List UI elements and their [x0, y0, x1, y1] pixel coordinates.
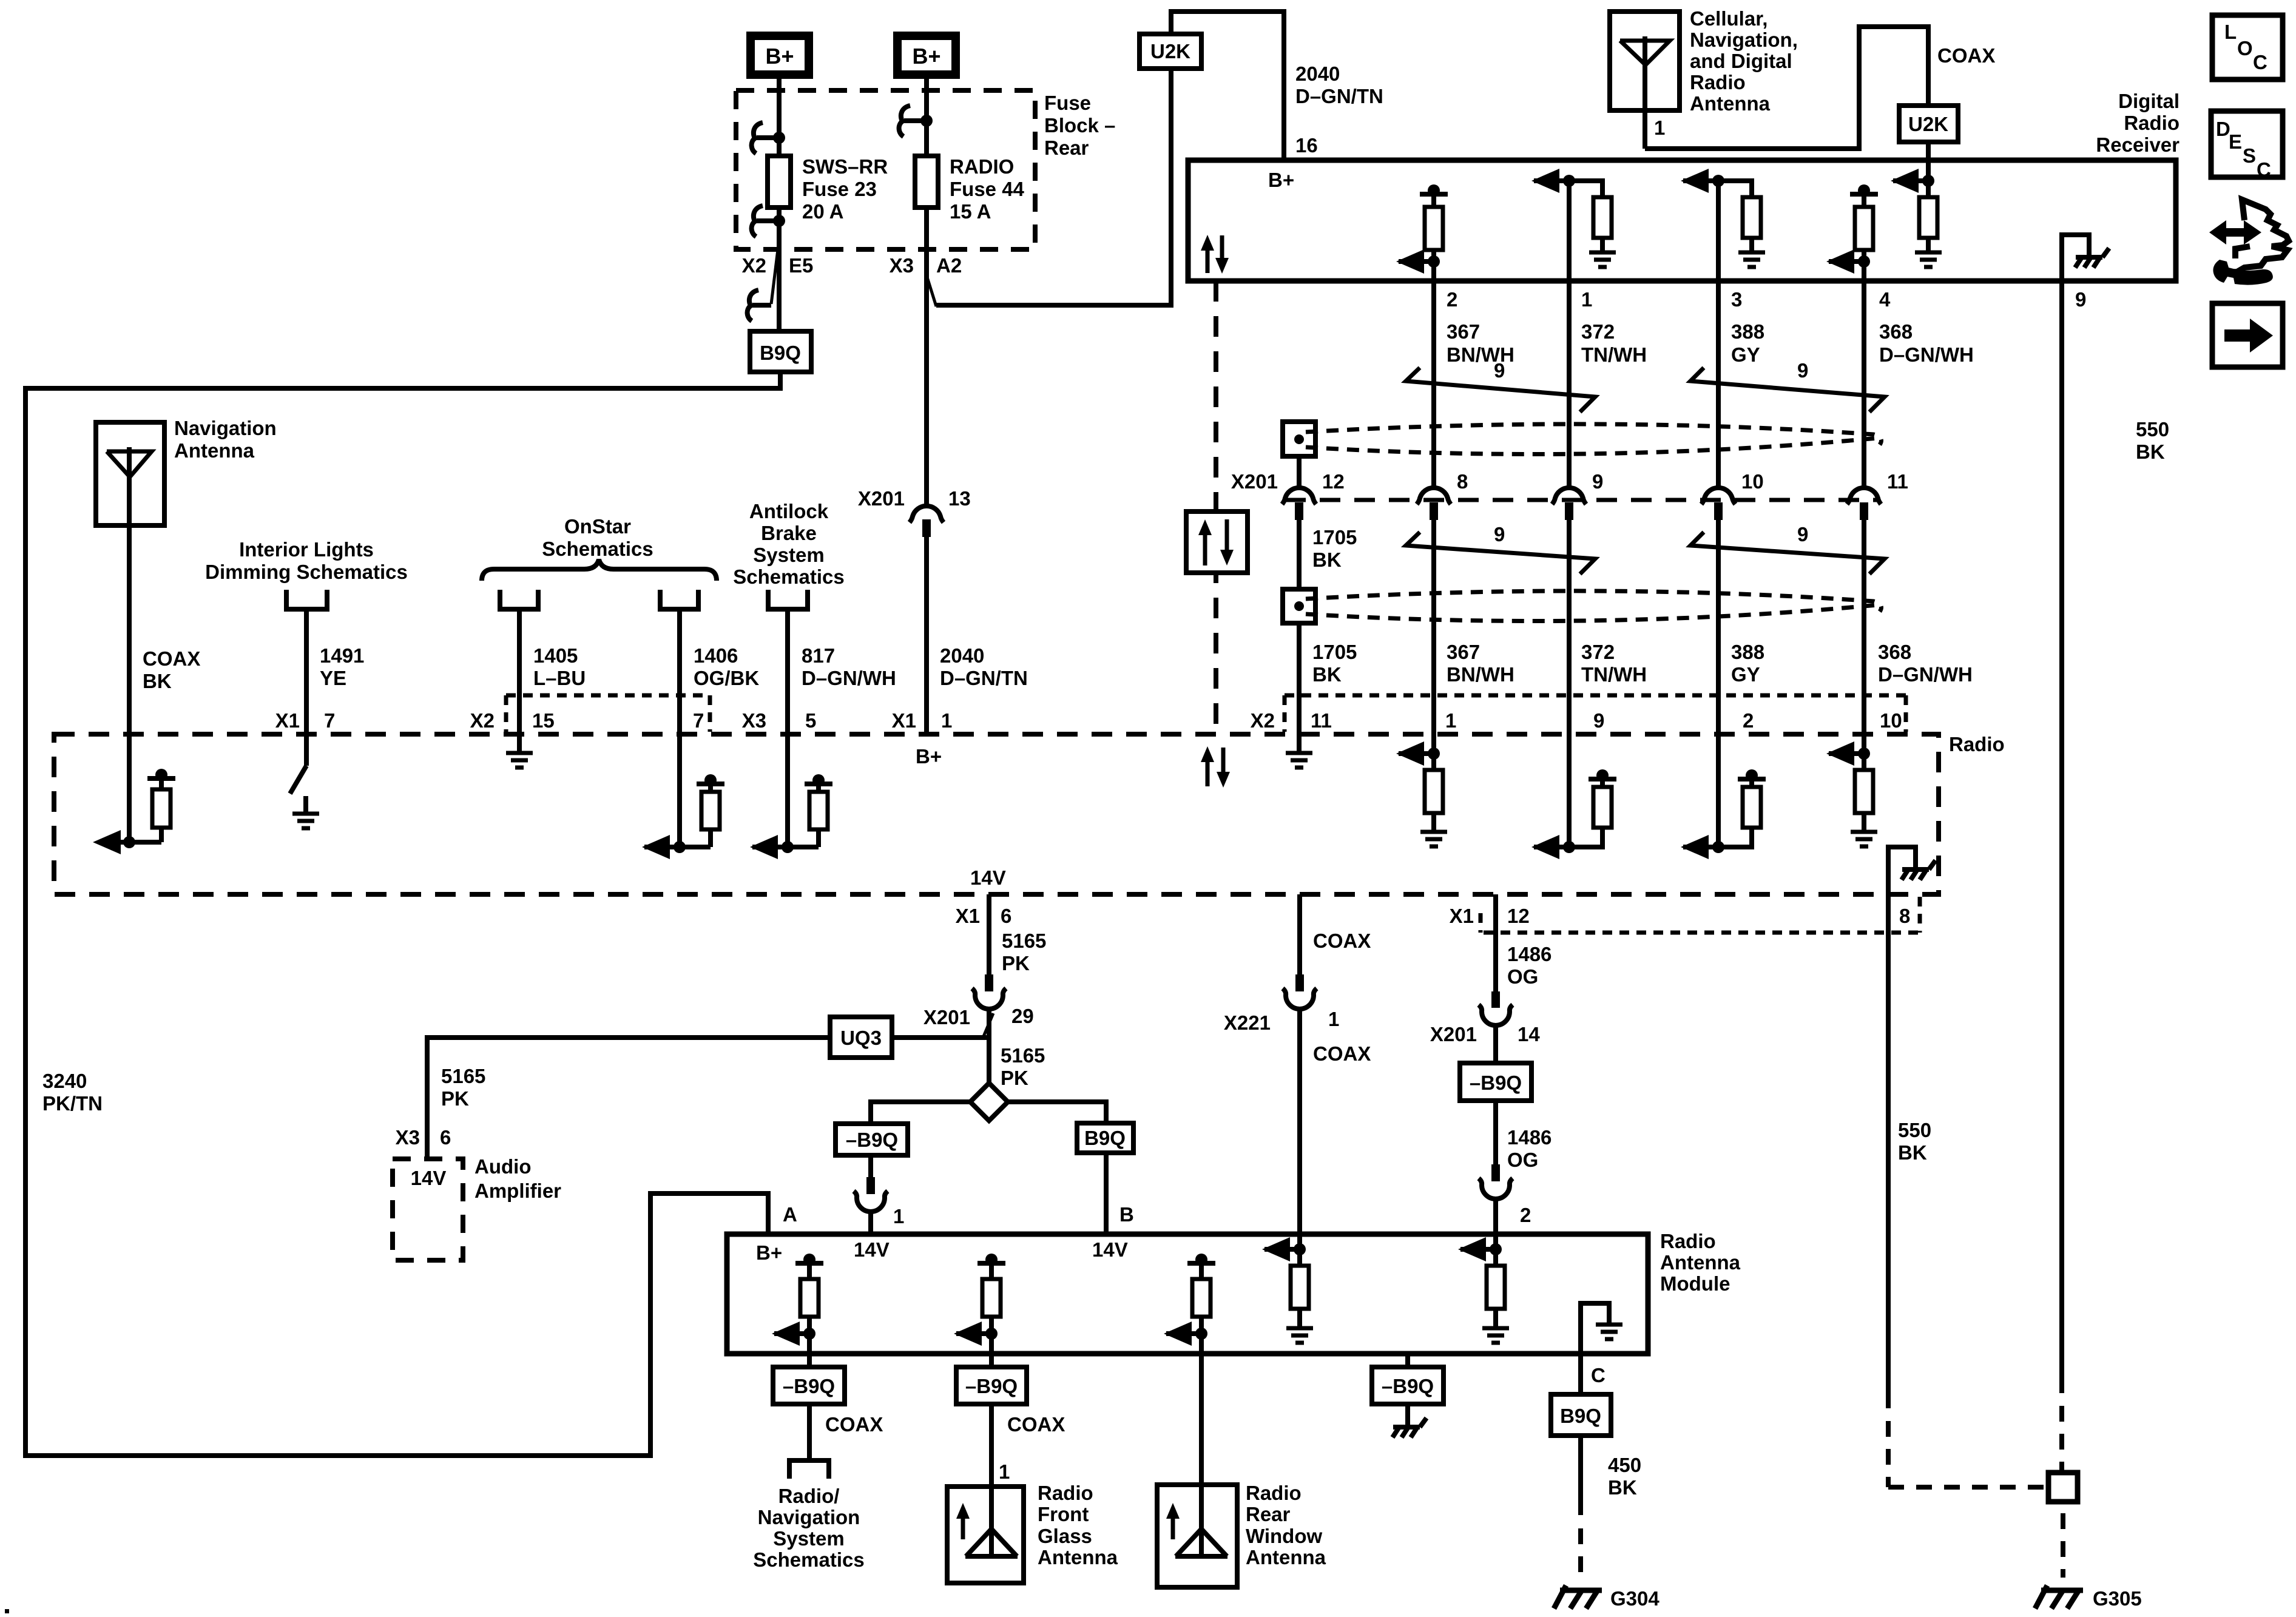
svg-text:U2K: U2K [1908, 113, 1948, 135]
svg-text:372: 372 [1581, 641, 1615, 663]
terminal hook upper SWS-RR [752, 123, 763, 154]
svg-text:12: 12 [1507, 905, 1530, 927]
svg-text:11: 11 [1887, 470, 1908, 493]
antenna symbol [107, 451, 152, 477]
crossing wires mark 9 lower-left [1406, 532, 1595, 574]
bidirectional arrows inside receiver [1206, 247, 1210, 273]
junction dot [920, 115, 933, 127]
dashed drain wire from receiver [1214, 281, 1218, 734]
svg-text:7: 7 [324, 709, 335, 732]
option code -B9Q box left [836, 1124, 908, 1155]
svg-text:6: 6 [440, 1126, 451, 1149]
svg-text:X3: X3 [890, 254, 914, 277]
svg-text:368: 368 [1878, 641, 1911, 663]
connector X201 pin 12 [1282, 488, 1316, 504]
svg-text:D–GN/TN: D–GN/TN [940, 667, 1028, 689]
DRR pin1 internal resistor to ground [1569, 181, 1602, 197]
svg-text:X2: X2 [742, 254, 766, 277]
connector X1 dashed outline [1484, 931, 1920, 935]
terminal hook lower SWS-RR [752, 206, 763, 237]
crossing wires mark 9 lower-right [1690, 532, 1885, 574]
wire 1406 OG/BK [677, 609, 682, 847]
svg-text:OG: OG [1507, 965, 1538, 988]
terminal hook below X2-E5 [748, 290, 758, 321]
svg-text:D–GN/WH: D–GN/WH [1878, 663, 1973, 686]
connector separation slash X3-A2 [927, 277, 936, 306]
svg-text:PK/TN: PK/TN [42, 1092, 103, 1115]
svg-text:G304: G304 [1610, 1587, 1660, 1610]
svg-text:BK: BK [1898, 1141, 1927, 1164]
svg-text:B9Q: B9Q [1084, 1127, 1126, 1149]
coax wire antenna to U2K [1645, 27, 1928, 149]
svg-text:COAX: COAX [1937, 44, 1995, 67]
svg-text:Antenna: Antenna [1038, 1546, 1118, 1568]
wire 368 D-GN/WH to radio [1862, 520, 1866, 754]
wire 2040 D-GN/TN to radio X1-1 [924, 537, 929, 736]
connector X201 row dashed line [1285, 498, 1878, 502]
option code U2K box right [1899, 106, 1958, 142]
svg-text:–B9Q: –B9Q [965, 1375, 1018, 1397]
wire fuse 44 down to X201-13 [924, 208, 929, 505]
svg-text:X1: X1 [956, 905, 980, 927]
front glass antenna symbol [961, 1515, 965, 1539]
wire pin 4 through box bottom [1862, 262, 1866, 487]
svg-text:29: 29 [1011, 1005, 1034, 1027]
radio coax input arrow [121, 840, 161, 845]
connector separation slash X2-E5 [771, 245, 778, 304]
Fuse Block - Rear dashed box [736, 90, 1035, 249]
svg-text:X3: X3 [396, 1126, 420, 1149]
forward reference arrow box [2212, 303, 2283, 367]
svg-text:GY: GY [1731, 663, 1760, 686]
svg-text:1491: 1491 [320, 644, 364, 667]
radio bidirectional arrows lower [1206, 758, 1210, 786]
wire diamond left to -B9Q [871, 1102, 970, 1124]
wire U2K up over to DRR pin 16 [1171, 12, 1284, 160]
svg-text:16: 16 [1295, 134, 1318, 157]
svg-text:BK: BK [2136, 441, 2165, 463]
connector X201 pin 29 [985, 974, 993, 991]
fuse SWS-RR Fuse 23 20 A [768, 156, 791, 208]
svg-text:PK: PK [1002, 952, 1030, 974]
svg-text:8: 8 [1457, 470, 1468, 493]
wire 450 BK [1578, 1436, 1583, 1515]
radio 388 arrow and resistor to B+ [1712, 841, 1724, 853]
crossing wires mark 9 upper-left [1406, 368, 1595, 412]
wire 388 GY to radio [1716, 520, 1721, 847]
LOC reference box [2212, 15, 2283, 79]
DRR pin9 internal chassis ground [2062, 235, 2089, 281]
svg-text:L: L [2224, 21, 2237, 43]
svg-text:367: 367 [1447, 641, 1480, 663]
wire 367 BN/WH to radio [1431, 520, 1436, 754]
svg-text:A2: A2 [936, 254, 962, 277]
svg-text:Radio: Radio [1038, 1482, 1093, 1504]
svg-text:9: 9 [1593, 709, 1604, 732]
module 1486 termination [1490, 1243, 1502, 1255]
svg-text:Antilock: Antilock [749, 500, 829, 522]
junction dot [773, 215, 785, 227]
svg-text:11: 11 [1311, 709, 1332, 732]
DRR coax termination resistor to ground [1926, 181, 1931, 197]
svg-text:2: 2 [1447, 288, 1457, 311]
svg-text:1: 1 [999, 1460, 1010, 1483]
svg-text:COAX: COAX [1313, 930, 1371, 952]
crossing wires mark 9 upper-right [1690, 368, 1885, 412]
module internal ground to pin C [1581, 1303, 1609, 1354]
svg-text:D–GN/WH: D–GN/WH [802, 667, 896, 689]
off-page bracket OnStar 7 [660, 590, 698, 609]
connector repair icon double arrow [2209, 220, 2261, 245]
option code -B9Q chassis [1372, 1367, 1443, 1404]
svg-text:BK: BK [143, 670, 172, 692]
ground G305 [2041, 1588, 2083, 1593]
svg-text:5165: 5165 [1001, 1044, 1045, 1067]
svg-text:Fuse 44: Fuse 44 [950, 178, 1025, 200]
svg-text:UQ3: UQ3 [840, 1027, 882, 1049]
svg-text:12: 12 [1322, 470, 1345, 493]
connector X2 OnStar dashed outline [506, 694, 710, 698]
wire 5165 PK to splice diamond [987, 1008, 991, 1084]
svg-text:15 A: 15 A [950, 200, 991, 223]
module leg nav-radio coax resistor [795, 1261, 823, 1266]
Navigation Antenna box [96, 422, 164, 525]
svg-text:G305: G305 [2093, 1587, 2142, 1610]
svg-text:1486: 1486 [1507, 943, 1551, 965]
svg-text:–B9Q: –B9Q [846, 1129, 898, 1151]
svg-text:COAX: COAX [1007, 1413, 1065, 1436]
DESC reference box [2211, 111, 2283, 177]
rear window antenna symbol [1171, 1515, 1175, 1539]
svg-text:Glass: Glass [1038, 1525, 1092, 1547]
fuse RADIO Fuse 44 15 A [915, 156, 938, 208]
svg-text:System: System [773, 1527, 844, 1550]
svg-text:B+: B+ [912, 44, 940, 69]
svg-text:Audio: Audio [474, 1155, 531, 1178]
option code -B9Q under module left [773, 1367, 845, 1404]
connector X2 radio dashed outline [1285, 694, 1906, 698]
svg-text:2040: 2040 [1295, 62, 1340, 85]
svg-text:7: 7 [693, 709, 704, 732]
svg-text:–B9Q: –B9Q [783, 1375, 835, 1397]
svg-text:C: C [2253, 51, 2267, 73]
svg-text:TN/WH: TN/WH [1581, 663, 1647, 686]
svg-text:BK: BK [1312, 663, 1342, 686]
wire UQ3 to audio amplifier [427, 1038, 830, 1159]
svg-text:388: 388 [1731, 320, 1764, 343]
radio internal chassis ground pin 8 [1888, 847, 1916, 933]
svg-text:10: 10 [1880, 709, 1902, 732]
module coax X221 termination [1294, 1243, 1306, 1255]
antenna symbol [1620, 41, 1670, 65]
wire diamond right to B9Q [1008, 1102, 1106, 1123]
connector pin 1 to antenna module A-side [868, 1155, 873, 1177]
Digital Radio Receiver box [1188, 160, 2176, 281]
svg-text:1: 1 [941, 709, 952, 732]
brace over OnStar wires [482, 559, 717, 581]
svg-text:1: 1 [1328, 1008, 1339, 1030]
connector X201 pin 11 [1847, 488, 1881, 504]
svg-text:2: 2 [1520, 1204, 1531, 1226]
svg-text:Radio: Radio [1690, 71, 1746, 93]
svg-text:14V: 14V [411, 1167, 447, 1189]
svg-text:15: 15 [532, 709, 555, 732]
svg-text:B: B [1119, 1203, 1134, 1226]
svg-text:RADIO: RADIO [950, 155, 1014, 178]
svg-text:1705: 1705 [1312, 641, 1357, 663]
option code U2K box [1140, 34, 1201, 69]
svg-text:1486: 1486 [1507, 1126, 1551, 1149]
svg-text:Rear: Rear [1044, 137, 1089, 159]
svg-text:2040: 2040 [940, 644, 984, 667]
svg-text:X201: X201 [1231, 470, 1278, 493]
radio 1406 internal resistor and arrow [674, 841, 686, 853]
svg-text:X2: X2 [1251, 709, 1275, 732]
svg-text:8: 8 [1899, 905, 1910, 927]
wire radio pin8 down [1886, 933, 1891, 1408]
svg-text:Antenna: Antenna [174, 439, 255, 462]
radio OnStar 15 internal ground [506, 751, 533, 755]
svg-text:5: 5 [805, 709, 816, 732]
svg-text:9: 9 [1797, 359, 1808, 382]
coax wire X221 to antenna module [1297, 1008, 1302, 1249]
page mark [5, 1609, 9, 1613]
DRR pin3 input arrow [1712, 175, 1724, 187]
svg-text:5165: 5165 [441, 1065, 485, 1087]
svg-text:Interior Lights: Interior Lights [239, 538, 374, 561]
svg-text:X201: X201 [858, 487, 905, 510]
svg-text:Radio: Radio [1660, 1230, 1716, 1252]
radio dimming switch to ground [290, 766, 306, 794]
svg-text:367: 367 [1447, 320, 1480, 343]
DRR coax input arrow from U2K [1926, 160, 1931, 181]
B+ power badge 2 [897, 36, 956, 75]
svg-text:Front: Front [1038, 1503, 1089, 1525]
svg-text:B9Q: B9Q [760, 342, 801, 364]
svg-text:1: 1 [1581, 288, 1592, 311]
svg-text:X3: X3 [742, 709, 766, 732]
svg-text:550: 550 [2136, 418, 2169, 441]
wire B+1 to fuse 23 [777, 75, 782, 156]
svg-text:388: 388 [1731, 641, 1764, 663]
svg-text:OG: OG [1507, 1149, 1538, 1171]
svg-text:Rear: Rear [1246, 1503, 1291, 1525]
connector repair icon wrench [2213, 260, 2272, 285]
off-page bracket ABS [768, 590, 808, 609]
wire 1491 YE [304, 609, 309, 766]
svg-text:Fuse: Fuse [1044, 92, 1091, 114]
svg-text:X221: X221 [1224, 1011, 1271, 1034]
wire pin 3 from box bottom [1716, 181, 1721, 487]
svg-text:Dimming Schematics: Dimming Schematics [205, 561, 408, 583]
DRR pin2 internal resistor to B+ [1420, 192, 1448, 197]
connector repair icon part outline [2223, 200, 2289, 272]
dashed wire 450 BK to G304 [1578, 1528, 1583, 1578]
DRR pin2 output arrow [1399, 259, 1434, 264]
svg-text:1406: 1406 [694, 644, 738, 667]
svg-text:Radio: Radio [2124, 112, 2180, 134]
svg-text:14V: 14V [854, 1238, 890, 1261]
option code B9Q bottom [1551, 1394, 1611, 1436]
svg-text:C: C [2257, 158, 2271, 181]
svg-text:X1: X1 [892, 709, 916, 732]
svg-text:1705: 1705 [1312, 526, 1357, 549]
DRR pin4 internal resistor to B+ [1850, 192, 1878, 197]
module leg front glass resistor [977, 1261, 1005, 1266]
connector X221 pin 1 [1295, 974, 1304, 991]
svg-text:1: 1 [1445, 709, 1456, 732]
svg-text:E: E [2229, 130, 2242, 153]
svg-text:14: 14 [1518, 1023, 1540, 1045]
svg-text:Antenna: Antenna [1690, 92, 1771, 115]
twisted pair dashed ellipse lower [1306, 591, 1881, 612]
shield twisted-pair marker square lower [1283, 589, 1315, 623]
svg-text:PK: PK [1001, 1067, 1028, 1089]
svg-text:and Digital: and Digital [1690, 50, 1792, 72]
svg-text:Radio: Radio [1949, 733, 2005, 755]
wire 2040 D-GN/TN from A2 to U2K and pin 16 [936, 69, 1171, 305]
radio 817 internal resistor and arrow [782, 841, 794, 853]
svg-text:Brake: Brake [761, 522, 817, 544]
svg-text:Radio: Radio [1246, 1482, 1302, 1504]
DRR pin4 output arrow [1829, 259, 1864, 264]
svg-text:Cellular,: Cellular, [1690, 7, 1768, 30]
svg-text:E5: E5 [789, 254, 813, 277]
svg-text:Module: Module [1660, 1272, 1730, 1295]
svg-text:B9Q: B9Q [1560, 1405, 1601, 1427]
wire module to rear window antenna [1199, 1334, 1204, 1529]
svg-text:1: 1 [893, 1205, 904, 1227]
connector pin 2 to antenna module [1491, 1164, 1500, 1181]
svg-text:9: 9 [1592, 470, 1603, 493]
svg-text:B+: B+ [916, 745, 942, 768]
svg-text:13: 13 [948, 487, 971, 510]
svg-text:U2K: U2K [1150, 40, 1190, 62]
off-page bracket OnStar 15 [500, 590, 538, 609]
svg-text:6: 6 [1001, 905, 1011, 927]
wire B9Q to antenna module B [1104, 1153, 1109, 1234]
DRR pin1 input arrow [1563, 175, 1575, 187]
svg-text:1405: 1405 [533, 644, 578, 667]
dashed wire splice to G305 [2061, 1513, 2065, 1578]
svg-text:OnStar: OnStar [564, 515, 631, 538]
Cellular Navigation Digital Radio Antenna box [1610, 12, 1680, 110]
dashed wire 550 BK to splice [2059, 1406, 2064, 1473]
radio 1705 internal ground [1286, 751, 1312, 755]
svg-text:9: 9 [2075, 288, 2086, 311]
svg-text:4: 4 [1879, 288, 1891, 311]
wire U2K to receiver [1926, 142, 1931, 163]
wire 5165 PK from X1-6 [987, 894, 991, 991]
svg-text:Receiver: Receiver [2096, 133, 2180, 156]
svg-text:D–GN/WH: D–GN/WH [1879, 343, 1974, 366]
option code -B9Q box mid [1460, 1063, 1531, 1101]
svg-text:B+: B+ [1268, 169, 1294, 191]
dashed wire pin8 to splice [1886, 1421, 1891, 1487]
svg-text:368: 368 [1879, 320, 1913, 343]
off-page bracket interior lights [286, 590, 327, 609]
svg-text:A: A [783, 1203, 797, 1226]
wire 1405 L-BU [517, 609, 522, 753]
svg-text:OG/BK: OG/BK [694, 667, 759, 689]
svg-text:B+: B+ [765, 44, 794, 69]
wire 1486 OG to -B9Q [1493, 1024, 1498, 1063]
wire 1705 BK upper segment [1297, 456, 1302, 486]
svg-text:X201: X201 [923, 1006, 970, 1028]
module ground chassis under box [1405, 1354, 1410, 1367]
svg-text:YE: YE [320, 667, 346, 689]
svg-text:Block –: Block – [1044, 114, 1115, 137]
wire pin 2 through box bottom [1431, 262, 1436, 487]
wire 1705 BK lower segment [1297, 623, 1302, 753]
svg-text:Schematics: Schematics [542, 538, 653, 560]
Radio Antenna Module box [727, 1234, 1648, 1354]
svg-text:9: 9 [1494, 523, 1505, 545]
coax wire to radio navigation schematics [807, 1404, 812, 1460]
B+ power badge 1 [751, 36, 809, 75]
wire 3240 PK/TN from B9Q down-left-down to A of antenna module [25, 372, 780, 1456]
wire 1705 BK pin to lower square [1297, 520, 1302, 589]
connector X201 pin 14 [1491, 991, 1500, 1008]
svg-text:BK: BK [1312, 549, 1342, 571]
svg-text:Navigation,: Navigation, [1690, 29, 1798, 51]
svg-text:Fuse 23: Fuse 23 [802, 178, 877, 200]
radio 367 input arrow and resistor [1428, 748, 1440, 760]
radio coax input resistor [147, 776, 175, 781]
terminal hook RADIO fuse [899, 106, 910, 137]
shield twisted-pair marker square upper [1283, 422, 1315, 456]
ground G304 [1560, 1588, 1602, 1593]
svg-text:D–GN/TN: D–GN/TN [1295, 85, 1383, 107]
svg-text:Antenna: Antenna [1246, 1546, 1326, 1568]
DRR pin3 internal resistor to ground [1718, 181, 1752, 197]
Radio Front Glass Antenna box [947, 1487, 1024, 1583]
svg-text:5165: 5165 [1002, 930, 1046, 952]
svg-text:X1: X1 [1450, 905, 1474, 927]
svg-text:3240: 3240 [42, 1070, 87, 1092]
option code B9Q box right [1077, 1123, 1133, 1153]
junction dot [773, 132, 785, 144]
svg-text:TN/WH: TN/WH [1581, 343, 1647, 366]
svg-text:10: 10 [1741, 470, 1764, 493]
module leg rear window resistor [1187, 1261, 1215, 1266]
svg-text:X1: X1 [275, 709, 300, 732]
svg-text:B+: B+ [756, 1241, 782, 1264]
svg-text:PK: PK [441, 1087, 469, 1110]
svg-text:Schematics: Schematics [733, 565, 844, 588]
svg-text:Amplifier: Amplifier [474, 1180, 561, 1202]
connector X201 pin 10 [1701, 488, 1735, 504]
svg-text:COAX: COAX [143, 647, 200, 670]
svg-text:X2: X2 [470, 709, 495, 732]
svg-text:9: 9 [1494, 359, 1505, 382]
svg-text:9: 9 [1797, 523, 1808, 545]
splice diamond 5165 PK [970, 1083, 1008, 1121]
svg-text:–B9Q: –B9Q [1470, 1072, 1522, 1094]
wire UQ3 to 5165 junction [892, 1035, 989, 1040]
splice junction square [2048, 1473, 2078, 1502]
svg-text:Radio/: Radio/ [778, 1485, 840, 1507]
svg-text:20 A: 20 A [802, 200, 843, 223]
svg-text:COAX: COAX [1313, 1042, 1371, 1065]
svg-text:Navigation: Navigation [174, 417, 277, 439]
option code UQ3 box [830, 1017, 892, 1058]
svg-text:2: 2 [1743, 709, 1754, 732]
svg-text:1: 1 [1654, 116, 1665, 139]
coax wire radio to X221 [1297, 894, 1302, 991]
svg-text:BN/WH: BN/WH [1447, 663, 1514, 686]
svg-text:817: 817 [802, 644, 835, 667]
